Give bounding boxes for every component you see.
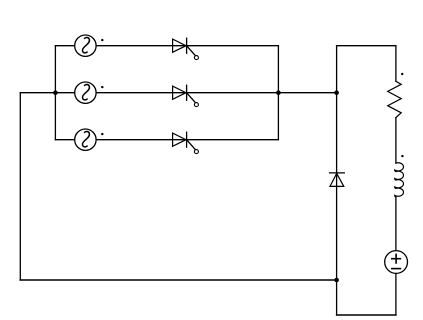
wire phase B row <box>55 92 278 94</box>
wire phase A row <box>55 45 278 47</box>
thyristor T2 <box>173 85 199 106</box>
node D junction <box>334 278 339 283</box>
wire right bus vertical <box>277 46 279 140</box>
wire bottom return <box>20 279 336 281</box>
node B junction <box>276 90 281 95</box>
wire freewheel branch <box>336 46 338 280</box>
wire phase C row <box>55 139 278 141</box>
thyristor T3 <box>173 132 199 153</box>
resistor R1 <box>388 73 404 118</box>
wire bus to node B <box>278 92 336 94</box>
wire left bus vertical <box>54 46 56 140</box>
ac source VB <box>75 82 104 103</box>
thyristor T1 <box>173 38 199 59</box>
wire node A to left outer <box>20 92 55 94</box>
wire resistor to inductor <box>395 118 397 164</box>
inductor L1 <box>395 155 404 197</box>
wire inductor to source <box>395 197 397 315</box>
wire load top lead <box>395 46 397 82</box>
node A junction <box>53 90 58 95</box>
ac source VC <box>75 129 104 150</box>
node C junction <box>334 90 339 95</box>
freewheeling diode D1 <box>330 173 345 187</box>
wire bottom sub return <box>337 314 396 316</box>
wire node C down <box>336 280 338 315</box>
ac source VA <box>75 35 104 56</box>
wire left outer vertical <box>19 93 21 280</box>
dc source E1 <box>385 251 408 274</box>
wire top to load <box>337 45 396 47</box>
